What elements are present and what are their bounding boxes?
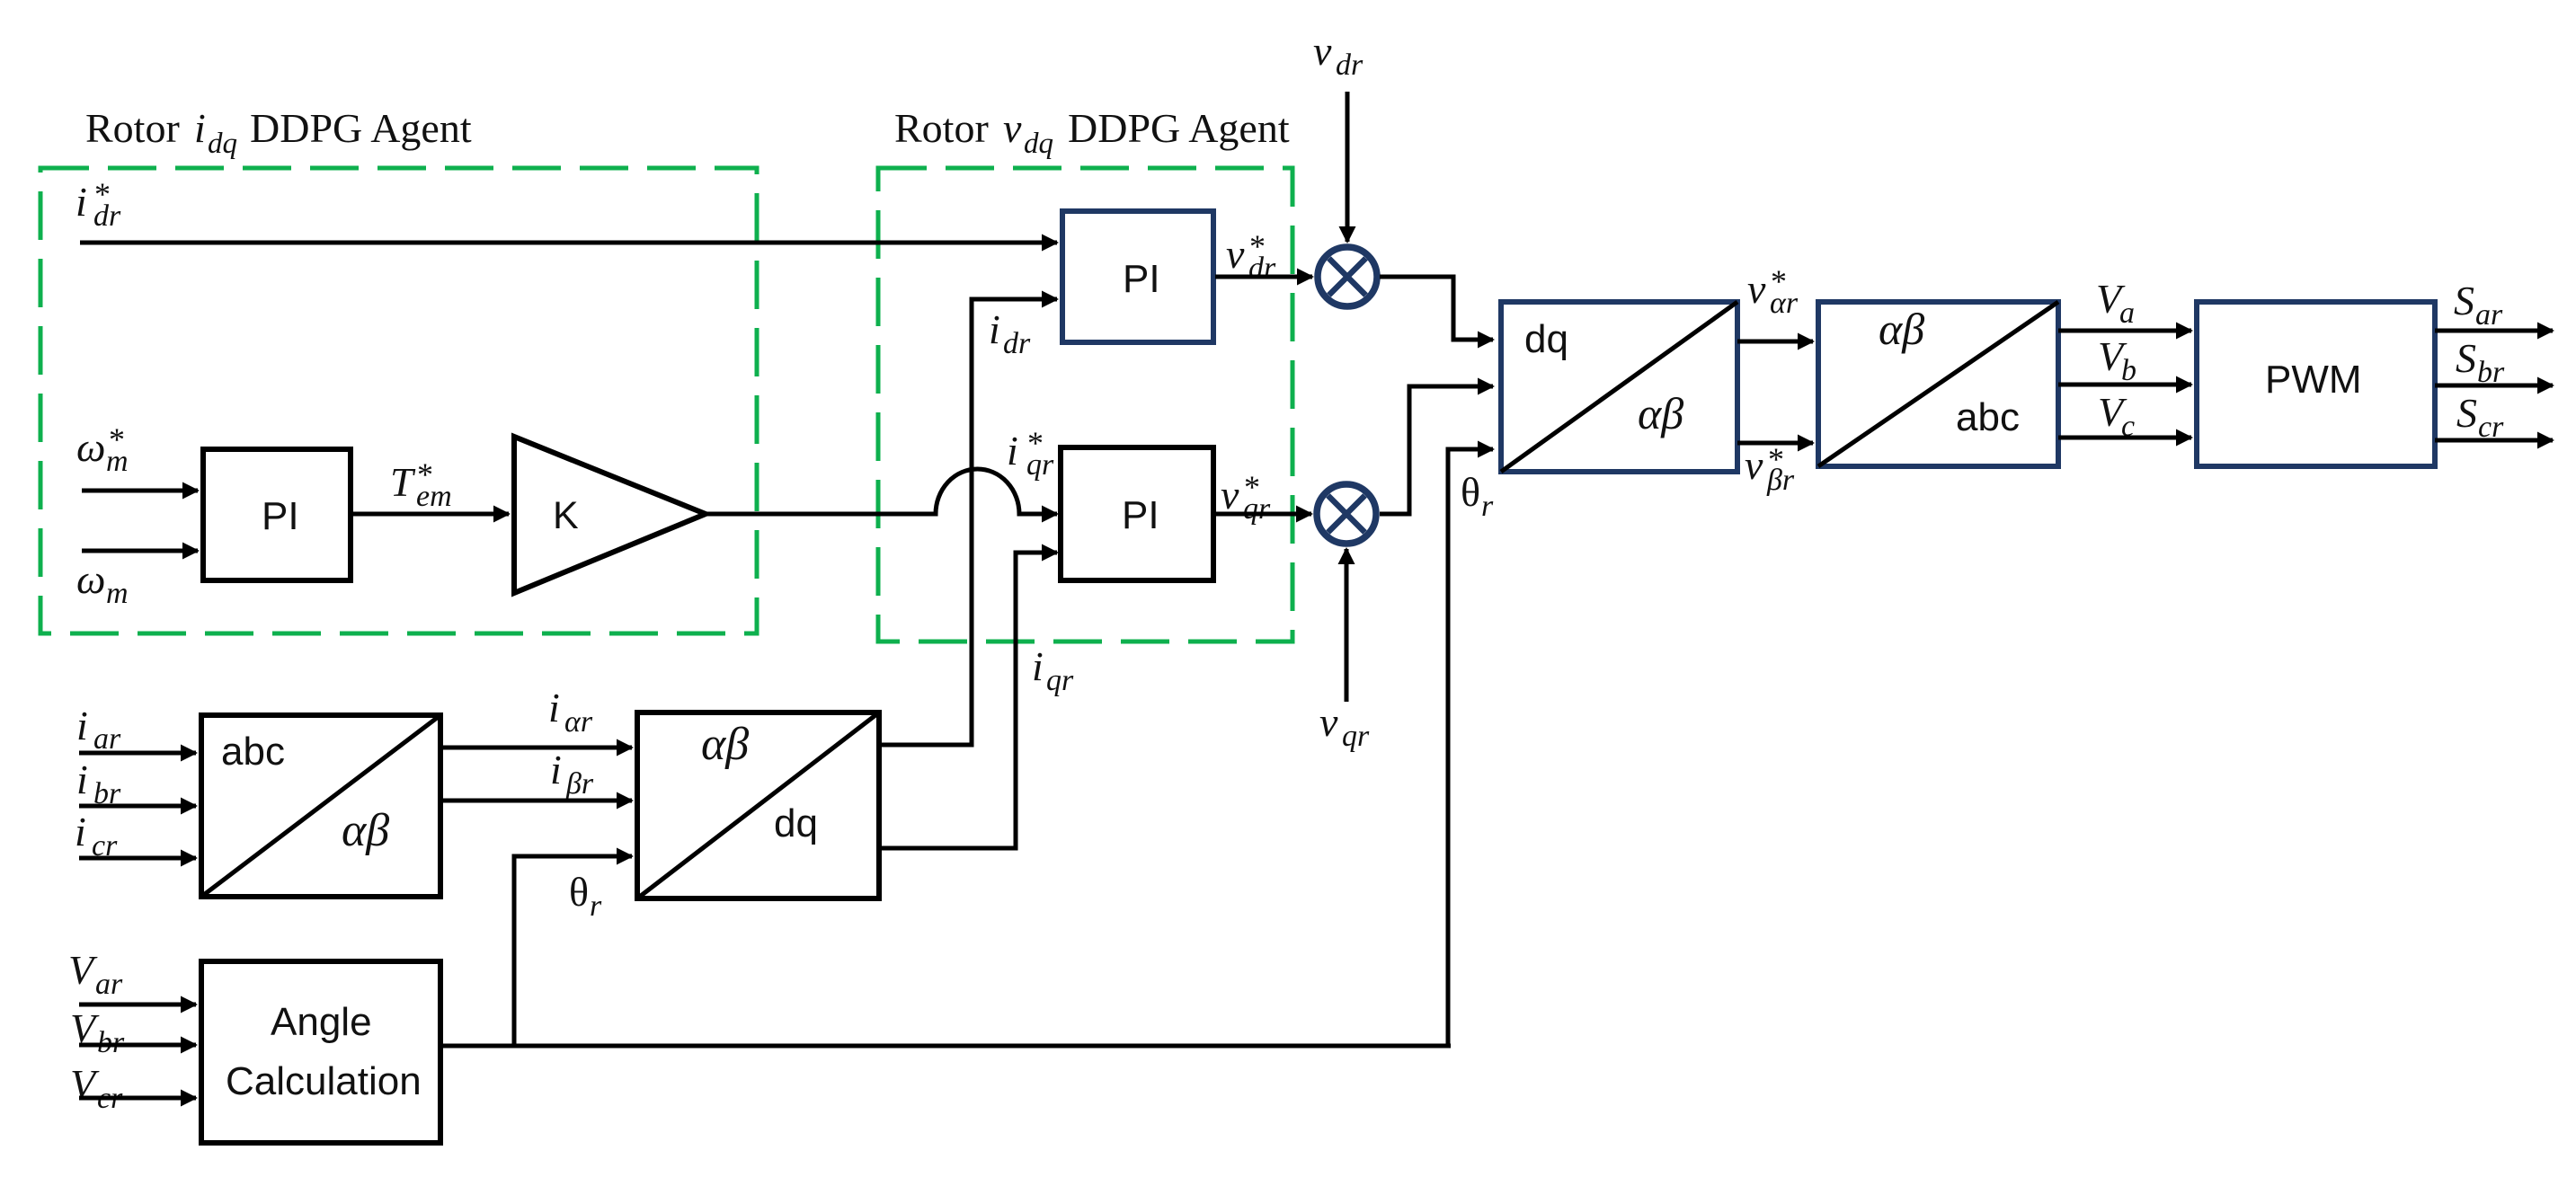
wire PI2 output to multiplier X2 bbox=[1215, 512, 1311, 517]
block alpha-beta to dq transform (currents) bbox=[637, 712, 879, 898]
wire K output rail with hop over i_dr line bbox=[706, 469, 1057, 514]
svg-text:Rotor: Rotor bbox=[894, 105, 989, 151]
wire V_ar input bbox=[79, 1003, 196, 1007]
wire T*em arrow PI to K bbox=[351, 512, 509, 517]
label S_ar bbox=[2454, 278, 2503, 332]
wire PI1 output to multiplier X1 bbox=[1215, 275, 1312, 279]
block alpha-beta to abc transform bbox=[1818, 302, 2058, 466]
svg-text:dr: dr bbox=[93, 199, 121, 233]
label theta_r (at ab/dq block) bbox=[569, 869, 602, 923]
label omega*m bbox=[76, 421, 129, 478]
svg-text:αβ: αβ bbox=[1638, 388, 1683, 438]
label v_qr bottom bbox=[1319, 699, 1370, 753]
svg-text:PI: PI bbox=[1123, 257, 1160, 301]
green dashed region: Rotor i_dq DDPG Agent bbox=[40, 168, 757, 633]
wire v*br to ab/abc bbox=[1737, 441, 1813, 446]
svg-text:i: i bbox=[76, 757, 88, 802]
svg-text:i: i bbox=[194, 105, 206, 151]
block PI speed controller bbox=[203, 449, 351, 580]
label V_a bbox=[2096, 276, 2135, 330]
svg-text:T: T bbox=[390, 459, 416, 505]
wire V_a bbox=[2058, 329, 2191, 333]
label v_dr top bbox=[1313, 28, 1364, 82]
svg-text:αβ: αβ bbox=[342, 805, 389, 856]
label T*em bbox=[390, 456, 452, 513]
svg-text:i: i bbox=[1032, 643, 1044, 689]
wire S_cr output bbox=[2435, 438, 2553, 443]
svg-text:βr: βr bbox=[565, 767, 594, 801]
wire theta_r junction up into ab/dq bbox=[514, 856, 632, 1046]
svg-text:r: r bbox=[1481, 490, 1494, 523]
wire V_b bbox=[2058, 383, 2191, 387]
svg-text:PI: PI bbox=[262, 494, 299, 538]
svg-text:S: S bbox=[2456, 335, 2476, 381]
svg-text:S: S bbox=[2454, 278, 2474, 323]
label S_cr bbox=[2456, 390, 2504, 444]
label i*qr bbox=[1007, 425, 1054, 482]
wire i_alpha-r bbox=[440, 746, 632, 750]
svg-text:abc: abc bbox=[1956, 395, 2020, 439]
svg-text:βr: βr bbox=[1766, 464, 1795, 497]
label V_ar bbox=[68, 947, 123, 1001]
label omega_m bbox=[76, 556, 129, 610]
wire i_br input bbox=[79, 804, 196, 809]
svg-text:PI: PI bbox=[1122, 493, 1159, 537]
block PI d-axis current controller bbox=[1062, 211, 1213, 342]
label theta_r (at dq/ab block) bbox=[1461, 469, 1494, 523]
svg-text:i: i bbox=[550, 747, 562, 792]
svg-text:v: v bbox=[1747, 266, 1766, 312]
svg-text:dr: dr bbox=[1336, 49, 1364, 82]
wire omega_m input bbox=[82, 549, 198, 553]
svg-text:dq: dq bbox=[208, 128, 237, 160]
block Angle Calculation bbox=[201, 961, 440, 1143]
svg-text:ω: ω bbox=[76, 424, 105, 470]
svg-text:v: v bbox=[1221, 472, 1239, 518]
label i_br bbox=[76, 757, 121, 810]
svg-text:v: v bbox=[1003, 105, 1022, 151]
wire i_beta-r bbox=[440, 799, 632, 803]
svg-text:i: i bbox=[75, 809, 86, 854]
svg-text:Angle: Angle bbox=[271, 1000, 372, 1044]
svg-text:i: i bbox=[1007, 428, 1018, 473]
label V_c bbox=[2098, 389, 2135, 443]
svg-text:ω: ω bbox=[76, 556, 105, 602]
label v*dr bbox=[1226, 228, 1276, 285]
svg-text:PWM: PWM bbox=[2265, 358, 2362, 402]
svg-text:Calculation: Calculation bbox=[226, 1059, 422, 1103]
wire i_cr input bbox=[79, 856, 196, 861]
wire X2 to dq/ab block input 2 bbox=[1380, 386, 1493, 514]
block abc to alpha-beta transform (currents) bbox=[201, 715, 440, 897]
svg-text:v: v bbox=[1745, 442, 1763, 488]
svg-text:dr: dr bbox=[1248, 252, 1276, 285]
label v*qr bbox=[1221, 469, 1271, 526]
wire i_dr feedback: from ab/dq block up into PI1 bbox=[879, 299, 1057, 745]
svg-text:v: v bbox=[1313, 28, 1332, 74]
wire v*ar to ab/abc bbox=[1737, 340, 1813, 344]
wire v_qr up into X2 bbox=[1345, 549, 1349, 702]
svg-text:m: m bbox=[106, 445, 129, 478]
svg-text:K: K bbox=[553, 494, 579, 537]
label i_qr bbox=[1032, 643, 1074, 697]
svg-text:dr: dr bbox=[1003, 327, 1031, 360]
label i_ar bbox=[76, 703, 121, 756]
svg-text:dq: dq bbox=[1524, 317, 1568, 361]
svg-text:v: v bbox=[1319, 699, 1338, 745]
wire i*dr rail into PI1 bbox=[80, 241, 1057, 245]
label i_cr bbox=[75, 809, 118, 863]
svg-text:V: V bbox=[68, 947, 98, 993]
wire V_cr input bbox=[79, 1096, 196, 1101]
svg-text:ar: ar bbox=[2475, 298, 2503, 332]
label V_cr bbox=[70, 1061, 123, 1115]
svg-text:qr: qr bbox=[1243, 492, 1271, 526]
label V_br bbox=[70, 1005, 125, 1059]
label i*dr bbox=[76, 176, 121, 233]
svg-text:abc: abc bbox=[221, 730, 285, 774]
label i_beta-r bbox=[550, 747, 594, 801]
svg-text:DDPG Agent: DDPG Agent bbox=[250, 105, 472, 151]
svg-text:v: v bbox=[1226, 231, 1245, 277]
multiplier X1 bbox=[1318, 247, 1377, 306]
block PWM bbox=[2197, 302, 2435, 466]
multiplier X2 bbox=[1317, 484, 1376, 544]
svg-text:qr: qr bbox=[1026, 448, 1054, 482]
svg-text:DDPG Agent: DDPG Agent bbox=[1068, 105, 1290, 151]
wire angle calculation output rail bbox=[440, 1044, 1451, 1049]
svg-text:ar: ar bbox=[93, 722, 121, 756]
svg-text:αr: αr bbox=[1770, 287, 1799, 320]
label: Rotor i_dq DDPG Agent bbox=[85, 105, 472, 160]
label S_br bbox=[2456, 335, 2505, 389]
svg-text:m: m bbox=[106, 577, 129, 610]
label i_dr bbox=[989, 306, 1031, 360]
label: Rotor v_dq DDPG Agent bbox=[894, 105, 1290, 160]
wire V_br input bbox=[79, 1043, 196, 1048]
wire S_br output bbox=[2435, 384, 2553, 388]
svg-text:dq: dq bbox=[774, 801, 818, 845]
svg-text:dq: dq bbox=[1024, 128, 1053, 160]
svg-text:r: r bbox=[590, 889, 602, 923]
svg-text:ar: ar bbox=[95, 968, 123, 1001]
svg-text:qr: qr bbox=[1046, 664, 1074, 697]
wire omega*m input bbox=[82, 489, 198, 493]
svg-text:b: b bbox=[2121, 354, 2136, 387]
svg-text:θ: θ bbox=[1461, 469, 1480, 515]
wire v_dr down into X1 bbox=[1346, 92, 1350, 242]
svg-text:i: i bbox=[76, 179, 87, 225]
gain K triangle bbox=[514, 437, 706, 593]
wire theta_r from angle calc rail up to dq/ab input 3 bbox=[1448, 449, 1493, 1046]
svg-text:i: i bbox=[548, 685, 560, 730]
label v*br (beta) bbox=[1745, 441, 1795, 497]
wire i_ar input bbox=[79, 751, 196, 756]
wire S_ar output bbox=[2435, 329, 2553, 333]
block dq to alpha-beta transform bbox=[1501, 302, 1737, 472]
wire i_qr feedback: from ab/dq block up into PI2 bbox=[879, 553, 1057, 848]
svg-text:i: i bbox=[76, 703, 88, 748]
wire X1 to dq/ab block input 1 bbox=[1380, 277, 1493, 340]
green dashed region: Rotor v_dq DDPG Agent bbox=[878, 168, 1292, 642]
svg-text:αr: αr bbox=[564, 705, 593, 739]
svg-text:a: a bbox=[2119, 296, 2135, 330]
block PI q-axis current controller bbox=[1061, 447, 1213, 580]
wire V_c bbox=[2058, 436, 2191, 440]
svg-text:em: em bbox=[416, 480, 452, 513]
label V_b bbox=[2098, 333, 2136, 387]
svg-text:i: i bbox=[989, 306, 1000, 352]
svg-text:S: S bbox=[2456, 390, 2477, 436]
svg-text:Rotor: Rotor bbox=[85, 105, 180, 151]
svg-text:θ: θ bbox=[569, 869, 589, 915]
svg-text:qr: qr bbox=[1342, 720, 1370, 753]
label i_alpha-r bbox=[548, 685, 593, 739]
svg-text:αβ: αβ bbox=[1879, 304, 1924, 354]
label v*ar (alpha) bbox=[1747, 263, 1799, 320]
svg-text:αβ: αβ bbox=[701, 719, 749, 770]
